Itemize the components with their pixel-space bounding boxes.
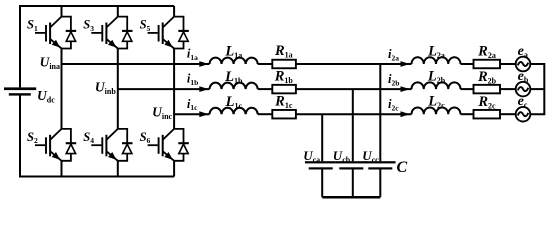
wire: capacitor bottom lead to neutral bus xyxy=(379,169,381,197)
resistor 1a xyxy=(272,60,296,69)
AC source ea xyxy=(516,57,531,72)
inductor L2b xyxy=(412,82,461,89)
current arrow i1a xyxy=(199,61,208,67)
battery Udc: short plate xyxy=(9,93,31,95)
transistor S2 (IGBT) xyxy=(35,129,62,161)
diode D5 (anti-parallel) xyxy=(174,17,189,49)
capacitor C (ca) bottom plate xyxy=(309,167,333,169)
current arrow i1b xyxy=(199,86,208,92)
wire: leg a middle segment (S1 emitter to S2 collector) xyxy=(61,49,63,129)
wire: grid bus right side (ea to ec) xyxy=(530,64,544,114)
wire: positive DC rail (left edge top + top bus) xyxy=(20,6,174,87)
resistor 2a xyxy=(474,60,501,69)
transistor S5 (IGBT) xyxy=(148,17,175,49)
wire: capacitor neutral bus xyxy=(322,196,380,199)
wire: leg c lower segment (S6 emitter to bottom bus) xyxy=(173,161,175,177)
inductor L2a xyxy=(412,57,461,64)
resistor 2b xyxy=(474,85,501,94)
resistor 1b xyxy=(272,85,296,94)
wire: leg c upper segment (top bus to S5 collector) xyxy=(173,6,175,17)
inductor L1b xyxy=(210,83,258,89)
wire: capacitor bottom lead to neutral bus xyxy=(352,169,354,197)
wire: phase a line, R1a to L2a (crosses capacitor taps) xyxy=(296,63,412,65)
wire: phase a line, inverter leg to L1a xyxy=(62,63,210,65)
diode D2 (anti-parallel) xyxy=(62,129,77,161)
wire: phase b line, R2b to source eb xyxy=(500,88,516,90)
wire: phase c line, R2c to source ec xyxy=(500,113,516,115)
AC source eb xyxy=(516,82,531,97)
capacitor C (cb) bottom plate xyxy=(339,167,363,169)
current arrow i1c xyxy=(199,111,208,117)
wire: eb to grid bus xyxy=(530,88,544,90)
svg-text:C: C xyxy=(397,159,408,176)
diode D6 (anti-parallel) xyxy=(174,129,189,161)
wire: phase c line, R1c to L2c (crosses capacitor taps) xyxy=(296,113,412,115)
transistor S4 (IGBT) xyxy=(91,129,118,161)
wire: capacitor bottom lead to neutral bus xyxy=(321,169,323,197)
wire: leg b upper segment (top bus to S3 collector) xyxy=(117,6,119,17)
wire: phase c line, L1c to R1c xyxy=(258,113,273,115)
transistor S3 (IGBT) xyxy=(91,17,118,49)
current arrow i2c xyxy=(401,111,410,117)
diode D1 (anti-parallel) xyxy=(62,17,77,49)
current arrow i2b xyxy=(401,86,410,92)
AC source ec xyxy=(516,107,531,122)
battery Udc: long plate xyxy=(4,87,36,90)
wire: phase c line, L2c to R2c xyxy=(461,113,474,115)
wire: phase a line, L2a to R2a xyxy=(461,63,474,65)
wire: leg a upper segment (top bus to S1 collector) xyxy=(61,6,63,17)
wire: leg c middle segment (S5 emitter to S6 collector) xyxy=(173,49,175,129)
wire: phase b line, L1b to R1b xyxy=(258,88,273,90)
inductor L2c xyxy=(412,107,461,114)
wire: negative DC rail (left edge bottom + bottom bus) xyxy=(20,95,174,176)
inductor L1c xyxy=(210,108,258,114)
wire: capacitor tap from phase a down to capacitor xyxy=(379,64,381,161)
wire: phase b line, R1b to L2b (crosses capacitor taps) xyxy=(296,88,412,90)
wire: phase a line, R2a to source ea xyxy=(500,63,516,65)
wire: phase a line, L1a to R1a xyxy=(258,63,273,65)
resistor 2c xyxy=(474,110,501,119)
diode D4 (anti-parallel) xyxy=(118,129,133,161)
wire: capacitor tap from phase b down to capacitor xyxy=(352,89,354,161)
wire: phase b line, L2b to R2b xyxy=(461,88,474,90)
diode D3 (anti-parallel) xyxy=(118,17,133,49)
wire: leg a lower segment (S2 emitter to bottom bus) xyxy=(61,161,63,177)
current arrow i2a xyxy=(401,61,410,67)
wire: phase b line, inverter leg to L1b xyxy=(118,88,210,90)
capacitor C (cc) top plate xyxy=(365,161,396,163)
transistor S1 (IGBT) xyxy=(35,17,62,49)
wire: leg b lower segment (S4 emitter to bottom bus) xyxy=(117,161,119,177)
capacitor C (ca) top plate xyxy=(305,161,336,163)
wire: phase c line, inverter leg to L1c xyxy=(174,113,209,115)
wire: leg b middle segment (S3 emitter to S4 collector) xyxy=(117,49,119,129)
wire: capacitor tap from phase c down to capacitor xyxy=(321,114,323,161)
inductor L1a xyxy=(210,58,258,64)
resistor 1c xyxy=(272,110,296,119)
capacitor C (cb) top plate xyxy=(336,161,367,163)
transistor S6 (IGBT) xyxy=(148,129,175,161)
capacitor C (cc) bottom plate xyxy=(368,167,392,169)
